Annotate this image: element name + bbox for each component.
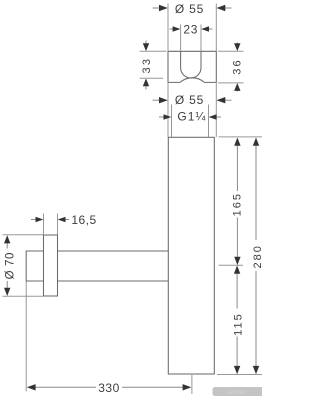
svg-text:165: 165 <box>232 192 244 216</box>
svg-text:115: 115 <box>233 312 245 336</box>
svg-text:onliner: onliner <box>228 390 247 396</box>
svg-text:Ø 70: Ø 70 <box>5 252 17 279</box>
svg-text:Ø 55: Ø 55 <box>175 2 204 16</box>
svg-text:23: 23 <box>183 23 198 37</box>
svg-text:G1¼: G1¼ <box>177 110 206 124</box>
svg-text:280: 280 <box>252 244 262 268</box>
svg-text:16,5: 16,5 <box>71 213 96 227</box>
svg-text:330: 330 <box>98 381 120 395</box>
svg-text:36: 36 <box>231 58 243 75</box>
svg-text:Ø 55: Ø 55 <box>175 93 204 107</box>
svg-text:33: 33 <box>141 57 153 74</box>
